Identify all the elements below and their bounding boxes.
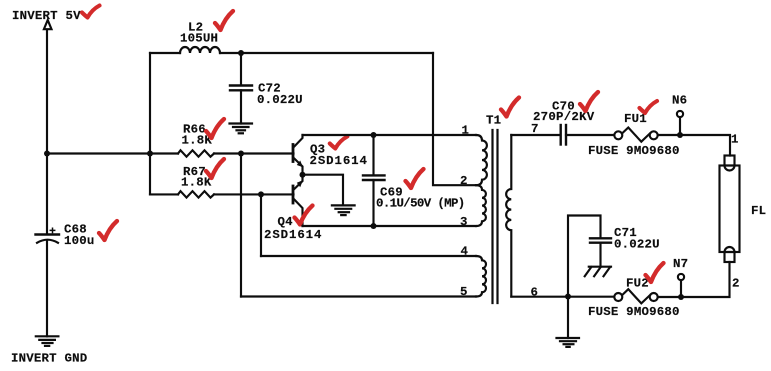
wire R67 row: [150, 193, 178, 195]
capacitor C70: [561, 125, 566, 145]
check mark at T1: [501, 98, 519, 117]
transformer T1 secondary winding 6-7: [506, 135, 511, 297]
transistor Q4: [293, 175, 303, 226]
inductor L2: [180, 47, 220, 53]
check mark at R67: [206, 159, 224, 178]
resistor R66: [178, 150, 214, 156]
wire R66 to Q3 base: [214, 152, 294, 154]
junction R67 / crosscouple B: [258, 191, 264, 197]
junction N6: [677, 132, 683, 138]
svg-text:1: 1: [731, 133, 739, 147]
svg-text:Q4: Q4: [278, 215, 294, 229]
svg-text:105UH: 105UH: [180, 32, 218, 46]
svg-text:FL: FL: [751, 204, 766, 218]
junction pin3 rail / C69: [371, 223, 377, 229]
wire C68 to ground: [46, 242, 48, 337]
check mark at C69: [406, 169, 424, 188]
svg-text:2: 2: [732, 277, 740, 291]
wire collector rail pin1: [303, 134, 477, 136]
wire C71 branch: [568, 216, 601, 297]
wire pin4 row: [261, 255, 476, 257]
terminal N6: [677, 111, 683, 135]
wire common emitter to ground: [303, 175, 344, 206]
transformer T1 primary winding 2-3: [476, 185, 486, 226]
svg-text:7: 7: [531, 122, 539, 136]
svg-text:FUSE 9MO9680: FUSE 9MO9680: [588, 305, 680, 319]
svg-text:1.8K: 1.8K: [181, 176, 212, 190]
wire R67 to Q4 base: [214, 193, 294, 195]
svg-text:100u: 100u: [64, 234, 95, 248]
ground at C72: [230, 124, 253, 134]
lamp FL: [720, 156, 740, 263]
capacitor C69: [363, 175, 385, 180]
check mark at Q3: [330, 137, 348, 149]
junction R66 / crosscouple A: [238, 151, 244, 157]
wire FL bottom: [658, 262, 730, 297]
wire crosscouple A (Q3 base to pin5): [240, 154, 242, 297]
check mark at R66: [206, 119, 224, 138]
svg-text:FU2: FU2: [626, 276, 649, 290]
check mark at FU1: [640, 101, 658, 113]
wire C72 stem top: [240, 53, 242, 85]
wire pin5 row: [241, 295, 476, 297]
svg-text:N7: N7: [673, 257, 688, 271]
wire pin6 to FU2: [511, 296, 614, 298]
junction pin1 rail / C69: [371, 132, 377, 138]
junction +5V / base feed: [44, 151, 50, 157]
junction base-feed / L2 branch: [147, 151, 153, 157]
power arrow INVERT 5V: [44, 20, 52, 29]
svg-text:0.022U: 0.022U: [614, 238, 660, 252]
wire C69 stem top: [372, 135, 374, 175]
svg-text:0.022U: 0.022U: [257, 93, 303, 107]
wire crosscouple B (Q4 base to pin4): [260, 194, 262, 256]
transformer T1 feedback winding 4-5: [476, 256, 486, 297]
chassis ground at C71: [585, 267, 611, 277]
wire C72 stem bottom: [240, 90, 242, 123]
junction top rail / C72: [238, 50, 244, 56]
wire FU1 to FL: [658, 135, 730, 156]
resistor R67: [178, 191, 214, 197]
check mark at FU2: [646, 263, 664, 282]
wire collector rail pin3: [303, 225, 477, 227]
svg-text:INVERT GND: INVERT GND: [11, 352, 87, 366]
ground INVERT GND: [36, 336, 59, 346]
check mark at INVERT 5V: [82, 6, 100, 18]
ground at secondary: [557, 338, 580, 347]
check mark at Q4: [295, 206, 313, 225]
transformer T1 core: [493, 130, 498, 303]
svg-text:T1: T1: [486, 114, 501, 128]
check mark at C68: [99, 221, 117, 240]
wire L2 branch vertical: [149, 53, 151, 194]
wire +5V vertical: [46, 30, 48, 234]
svg-text:2: 2: [460, 174, 468, 188]
fuse FU1: [614, 128, 657, 142]
wire top rail right: [220, 52, 433, 54]
capacitor C72: [230, 86, 252, 91]
junction pin6 / C71 / ground: [565, 294, 571, 300]
svg-text:2SD1614: 2SD1614: [264, 228, 322, 242]
transformer T1 primary winding 1-2: [476, 135, 487, 185]
junction N7: [678, 294, 684, 300]
svg-text:N6: N6: [672, 94, 687, 108]
wire C70 to FU1: [566, 134, 614, 136]
svg-text:2SD1614: 2SD1614: [310, 154, 368, 168]
svg-text:FUSE 9MO9680: FUSE 9MO9680: [588, 144, 680, 158]
wire top rail left: [150, 52, 180, 54]
wire C71 to chassis ground: [599, 243, 601, 267]
capacitor C68: [36, 228, 60, 243]
wire C69 stem bottom: [372, 180, 374, 226]
fuse FU2: [614, 289, 657, 303]
svg-text:1: 1: [462, 124, 470, 138]
transistor Q3: [293, 135, 303, 175]
wire center tap drop: [433, 53, 476, 185]
terminal N7: [678, 274, 684, 297]
wire base feed R66 row: [47, 152, 178, 154]
svg-text:3: 3: [460, 215, 468, 229]
ground at emitters: [332, 205, 355, 215]
check mark at L2: [215, 11, 233, 30]
svg-text:0.1U/50V (MP): 0.1U/50V (MP): [376, 197, 465, 211]
capacitor C71: [590, 238, 611, 242]
wire secondary ground drop: [567, 297, 569, 338]
junction common emitter: [300, 172, 306, 178]
svg-text:4: 4: [461, 245, 469, 259]
wire pin7 to C70: [511, 134, 559, 136]
check mark at C70: [580, 92, 598, 111]
svg-text:5: 5: [460, 285, 468, 299]
